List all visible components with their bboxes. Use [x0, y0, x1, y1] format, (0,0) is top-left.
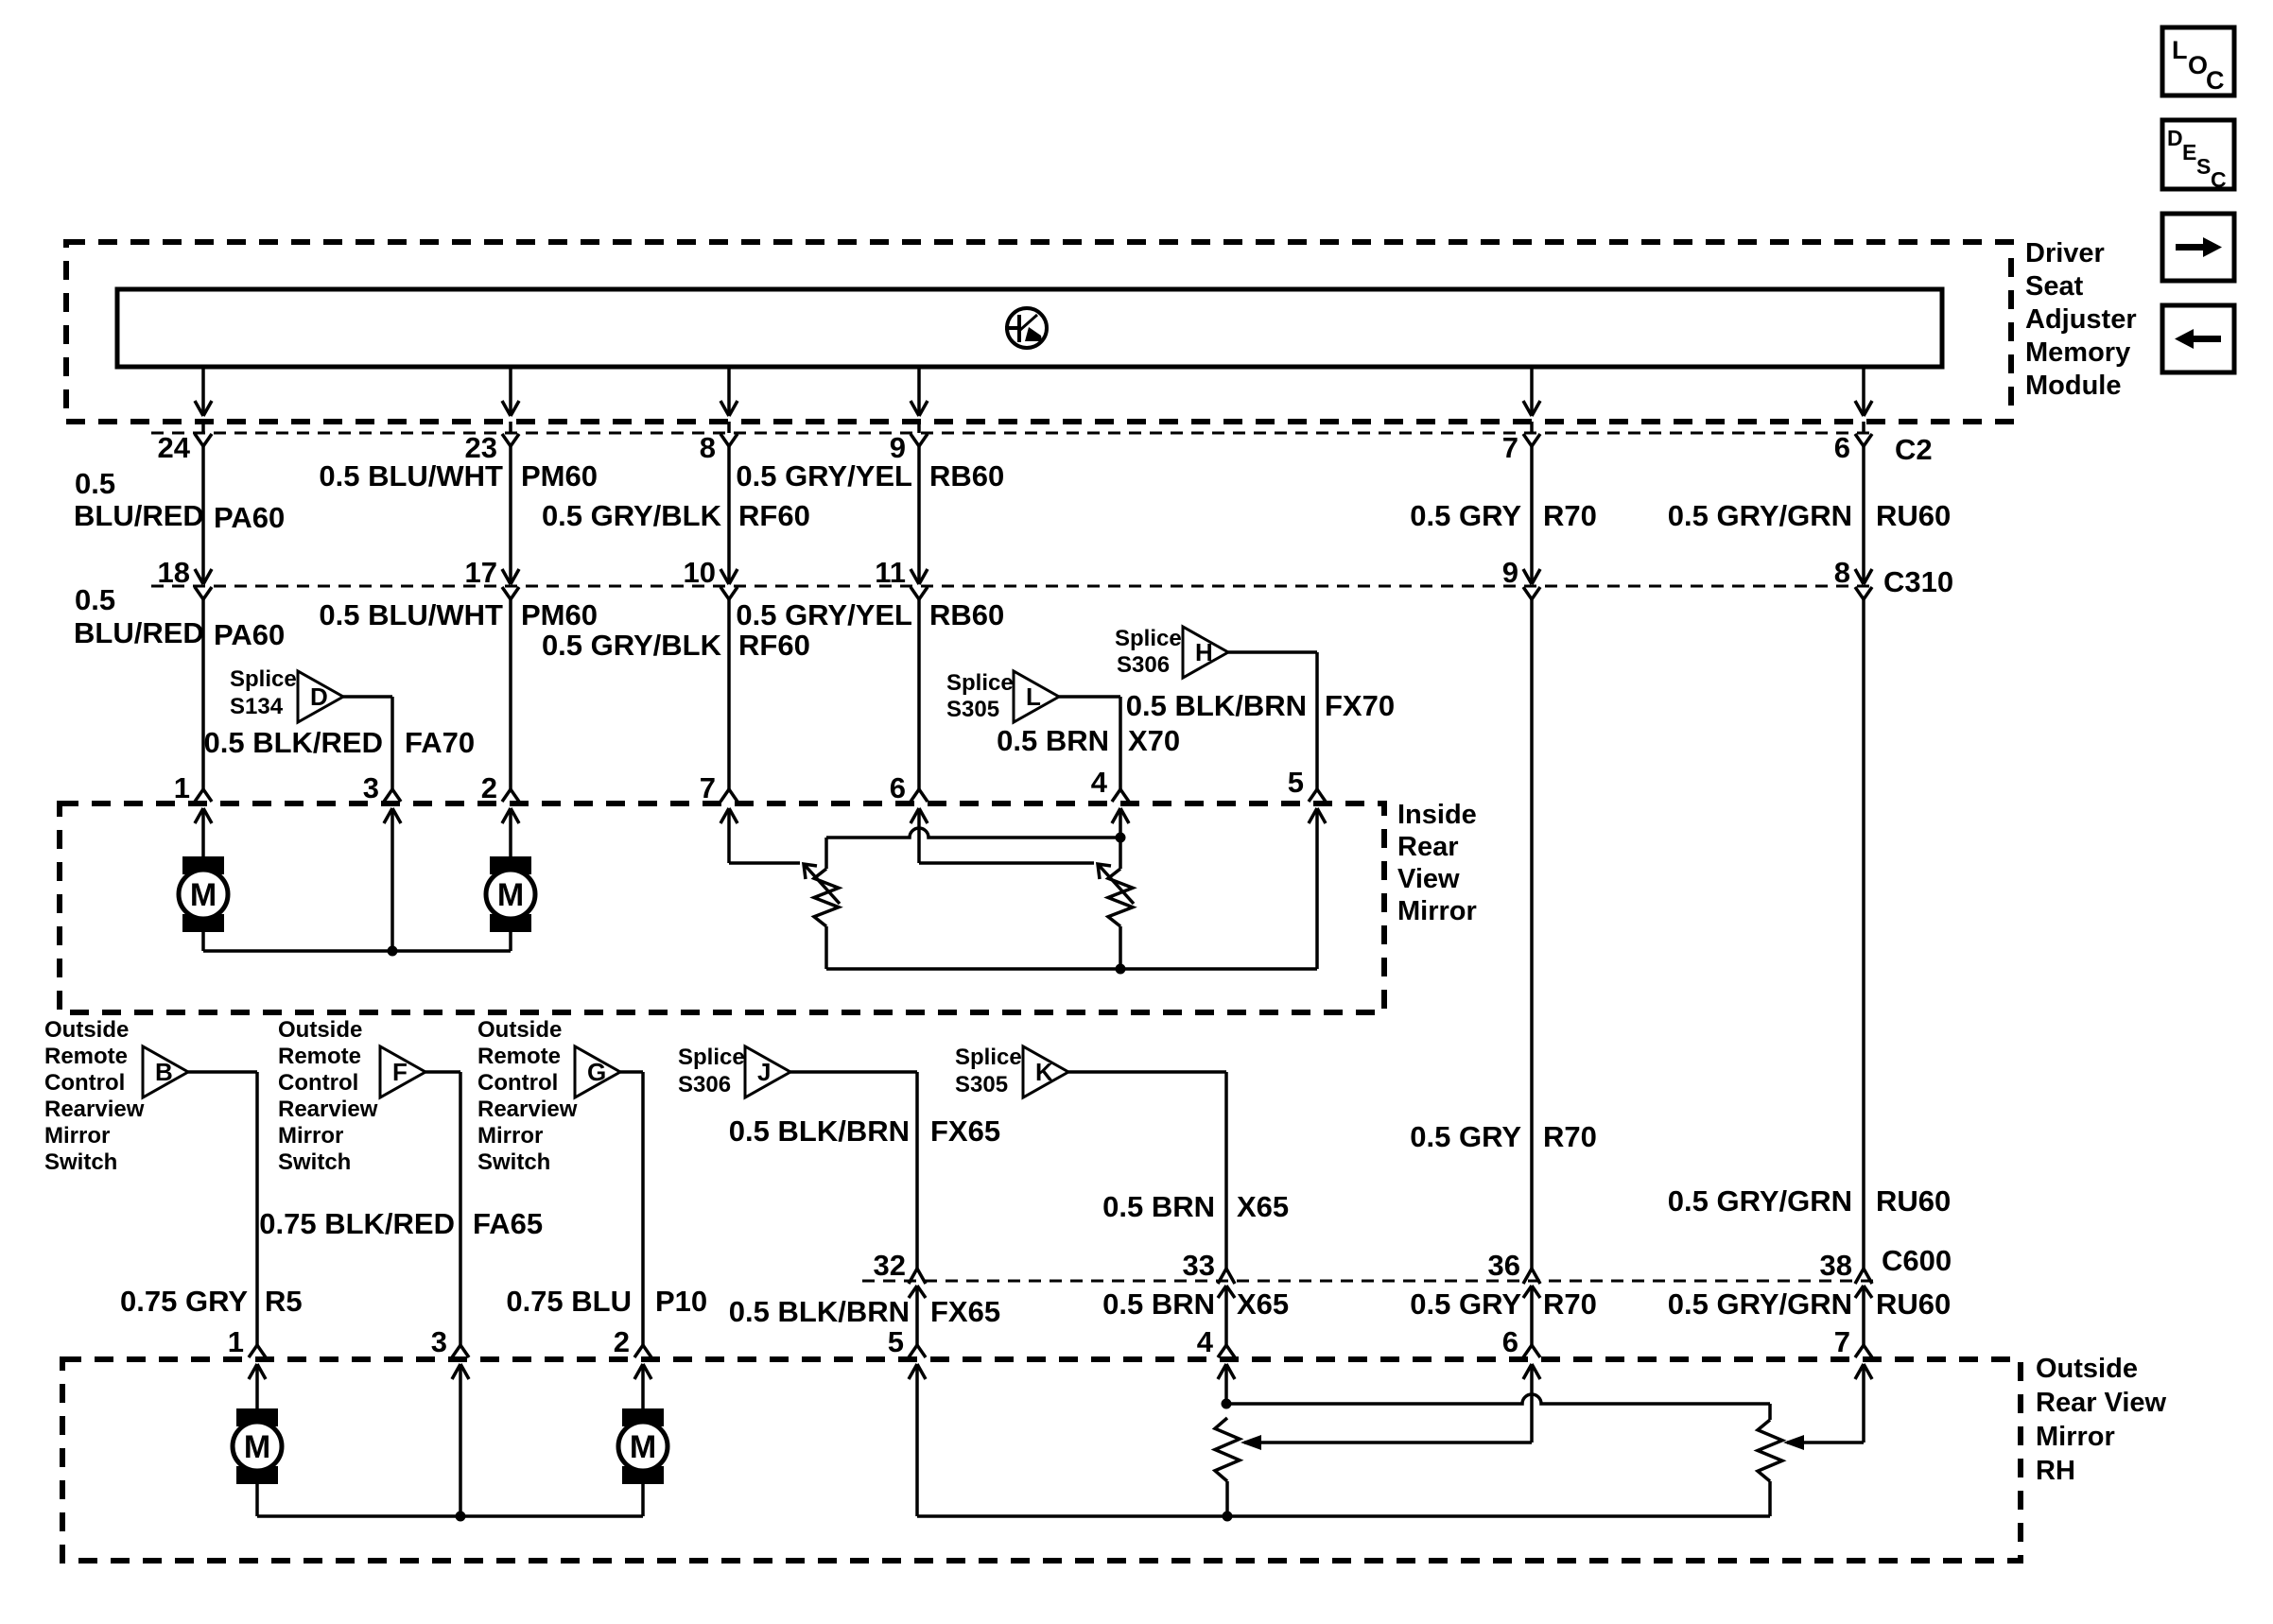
svg-text:Splice: Splice [1115, 626, 1182, 651]
svg-text:G: G [587, 1058, 606, 1086]
svg-text:FX65: FX65 [930, 1295, 1000, 1328]
svg-text:Outside: Outside [2036, 1354, 2138, 1384]
svg-text:0.5 BLK/BRN: 0.5 BLK/BRN [1126, 689, 1307, 722]
svg-text:FA70: FA70 [405, 726, 475, 759]
svg-text:RH: RH [2036, 1456, 2075, 1486]
svg-text:FA65: FA65 [473, 1207, 543, 1240]
svg-text:17: 17 [465, 556, 497, 589]
svg-text:Driver: Driver [2025, 238, 2105, 268]
svg-text:S: S [2196, 154, 2211, 179]
svg-text:3: 3 [431, 1325, 447, 1358]
svg-text:C2: C2 [1895, 433, 1933, 466]
svg-text:0.75 GRY: 0.75 GRY [120, 1285, 248, 1318]
svg-text:0.5 BLU/WHT: 0.5 BLU/WHT [319, 459, 503, 492]
svg-text:0.5 GRY/GRN: 0.5 GRY/GRN [1668, 1184, 1852, 1218]
svg-text:K: K [1035, 1058, 1053, 1086]
svg-text:S134: S134 [230, 694, 284, 719]
svg-text:0.5: 0.5 [75, 583, 115, 616]
svg-text:Rearview: Rearview [278, 1097, 378, 1122]
svg-text:32: 32 [874, 1249, 906, 1282]
svg-text:L: L [2172, 36, 2188, 64]
svg-text:Splice: Splice [955, 1045, 1022, 1070]
svg-text:C: C [2211, 167, 2227, 192]
svg-text:Outside: Outside [477, 1017, 562, 1043]
svg-text:0.5 BLK/BRN: 0.5 BLK/BRN [729, 1295, 910, 1328]
svg-text:7: 7 [1834, 1325, 1850, 1358]
svg-text:C310: C310 [1883, 565, 1953, 598]
svg-text:C: C [2206, 66, 2225, 95]
svg-text:36: 36 [1488, 1249, 1520, 1282]
svg-text:H: H [1195, 638, 1213, 666]
svg-text:X65: X65 [1237, 1190, 1289, 1223]
svg-text:Remote: Remote [278, 1044, 361, 1069]
svg-text:Outside: Outside [44, 1017, 129, 1043]
svg-text:Rearview: Rearview [44, 1097, 145, 1122]
svg-text:O: O [2188, 51, 2208, 79]
svg-text:L: L [1026, 682, 1041, 711]
svg-text:RB60: RB60 [929, 459, 1004, 492]
svg-text:Control: Control [44, 1070, 125, 1096]
svg-text:M: M [497, 877, 524, 913]
svg-text:7: 7 [1502, 431, 1518, 464]
svg-text:BLU/RED: BLU/RED [74, 499, 204, 532]
svg-text:Remote: Remote [44, 1044, 128, 1069]
svg-text:6: 6 [1834, 431, 1850, 464]
svg-text:4: 4 [1091, 766, 1108, 799]
svg-text:Switch: Switch [278, 1149, 351, 1175]
svg-text:D: D [310, 682, 328, 711]
svg-text:33: 33 [1183, 1249, 1215, 1282]
svg-text:S306: S306 [678, 1072, 731, 1097]
svg-text:7: 7 [700, 771, 716, 804]
svg-text:M: M [190, 877, 217, 913]
svg-text:0.5 BLK/BRN: 0.5 BLK/BRN [729, 1114, 910, 1148]
svg-text:10: 10 [684, 556, 716, 589]
svg-text:Inside: Inside [1397, 800, 1477, 830]
svg-text:Mirror: Mirror [44, 1123, 110, 1149]
svg-text:0.5 BLU/WHT: 0.5 BLU/WHT [319, 598, 503, 631]
svg-text:24: 24 [158, 431, 191, 464]
svg-text:0.5 GRY/YEL: 0.5 GRY/YEL [736, 459, 912, 492]
svg-text:Mirror: Mirror [2036, 1422, 2115, 1452]
svg-text:0.5 GRY/BLK: 0.5 GRY/BLK [542, 499, 722, 532]
svg-text:0.5 BLK/RED: 0.5 BLK/RED [204, 726, 383, 759]
svg-text:5: 5 [888, 1325, 904, 1358]
svg-text:0.5: 0.5 [75, 467, 115, 500]
svg-text:9: 9 [1502, 556, 1518, 589]
svg-text:Mirror: Mirror [278, 1123, 343, 1149]
svg-text:3: 3 [363, 771, 379, 804]
svg-text:R70: R70 [1543, 1120, 1597, 1153]
svg-text:0.75 BLK/RED: 0.75 BLK/RED [259, 1207, 455, 1240]
svg-text:0.75 BLU: 0.75 BLU [506, 1285, 632, 1318]
svg-text:PA60: PA60 [214, 618, 285, 651]
svg-text:4: 4 [1197, 1325, 1214, 1358]
svg-text:PA60: PA60 [214, 501, 285, 534]
svg-text:Rearview: Rearview [477, 1097, 578, 1122]
svg-text:FX65: FX65 [930, 1114, 1000, 1148]
svg-text:RU60: RU60 [1876, 499, 1951, 532]
svg-text:6: 6 [1502, 1325, 1518, 1358]
svg-text:0.5 GRY: 0.5 GRY [1410, 499, 1521, 532]
svg-text:Switch: Switch [44, 1149, 117, 1175]
svg-text:RB60: RB60 [929, 598, 1004, 631]
svg-text:S305: S305 [946, 697, 999, 722]
svg-text:D: D [2167, 126, 2183, 150]
svg-text:PM60: PM60 [521, 598, 598, 631]
svg-text:F: F [392, 1058, 408, 1086]
svg-text:R70: R70 [1543, 499, 1597, 532]
svg-text:J: J [757, 1058, 771, 1086]
svg-text:0.5 BRN: 0.5 BRN [1102, 1287, 1215, 1321]
svg-text:View: View [1397, 864, 1460, 894]
svg-text:Rear View: Rear View [2036, 1388, 2167, 1418]
svg-text:0.5 BRN: 0.5 BRN [1102, 1190, 1215, 1223]
svg-text:RF60: RF60 [738, 629, 810, 662]
svg-text:X70: X70 [1128, 724, 1180, 757]
svg-text:Seat: Seat [2025, 271, 2084, 302]
svg-text:R70: R70 [1543, 1287, 1597, 1321]
svg-text:E: E [2182, 140, 2196, 164]
svg-text:Splice: Splice [946, 670, 1014, 696]
svg-text:38: 38 [1820, 1249, 1852, 1282]
svg-text:0.5 GRY: 0.5 GRY [1410, 1120, 1521, 1153]
svg-text:2: 2 [614, 1325, 630, 1358]
svg-text:Splice: Splice [678, 1045, 745, 1070]
svg-text:0.5 GRY/YEL: 0.5 GRY/YEL [736, 598, 912, 631]
svg-text:X65: X65 [1237, 1287, 1289, 1321]
svg-text:0.5 GRY/GRN: 0.5 GRY/GRN [1668, 499, 1852, 532]
svg-text:Mirror: Mirror [477, 1123, 543, 1149]
svg-text:0.5 GRY/BLK: 0.5 GRY/BLK [542, 629, 722, 662]
svg-text:Splice: Splice [230, 666, 297, 692]
svg-text:0.5 GRY: 0.5 GRY [1410, 1287, 1521, 1321]
svg-text:P10: P10 [655, 1285, 707, 1318]
svg-text:Remote: Remote [477, 1044, 561, 1069]
svg-text:5: 5 [1288, 766, 1304, 799]
svg-text:8: 8 [700, 431, 716, 464]
svg-text:Adjuster: Adjuster [2025, 304, 2137, 335]
svg-text:1: 1 [174, 771, 190, 804]
svg-text:Control: Control [477, 1070, 558, 1096]
svg-text:RU60: RU60 [1876, 1184, 1951, 1218]
svg-text:Module: Module [2025, 371, 2122, 401]
svg-text:Memory: Memory [2025, 337, 2130, 368]
svg-text:S306: S306 [1117, 652, 1170, 678]
svg-text:M: M [244, 1429, 270, 1465]
svg-text:BLU/RED: BLU/RED [74, 616, 204, 649]
svg-text:2: 2 [481, 771, 497, 804]
svg-text:Mirror: Mirror [1397, 896, 1477, 926]
svg-text:Rear: Rear [1397, 832, 1459, 862]
svg-text:11: 11 [875, 556, 906, 589]
svg-text:RF60: RF60 [738, 499, 810, 532]
svg-text:Control: Control [278, 1070, 358, 1096]
svg-text:6: 6 [890, 771, 906, 804]
svg-text:1: 1 [228, 1325, 244, 1358]
svg-text:S305: S305 [955, 1072, 1008, 1097]
svg-text:8: 8 [1834, 556, 1850, 589]
svg-text:0.5 GRY/GRN: 0.5 GRY/GRN [1668, 1287, 1852, 1321]
svg-text:Outside: Outside [278, 1017, 362, 1043]
svg-text:FX70: FX70 [1325, 689, 1395, 722]
svg-text:Switch: Switch [477, 1149, 550, 1175]
svg-text:B: B [155, 1058, 173, 1086]
svg-text:0.5 BRN: 0.5 BRN [997, 724, 1109, 757]
svg-text:M: M [630, 1429, 656, 1465]
svg-text:RU60: RU60 [1876, 1287, 1951, 1321]
svg-text:18: 18 [158, 556, 190, 589]
svg-text:PM60: PM60 [521, 459, 598, 492]
svg-text:R5: R5 [265, 1285, 303, 1318]
svg-text:C600: C600 [1882, 1244, 1952, 1277]
